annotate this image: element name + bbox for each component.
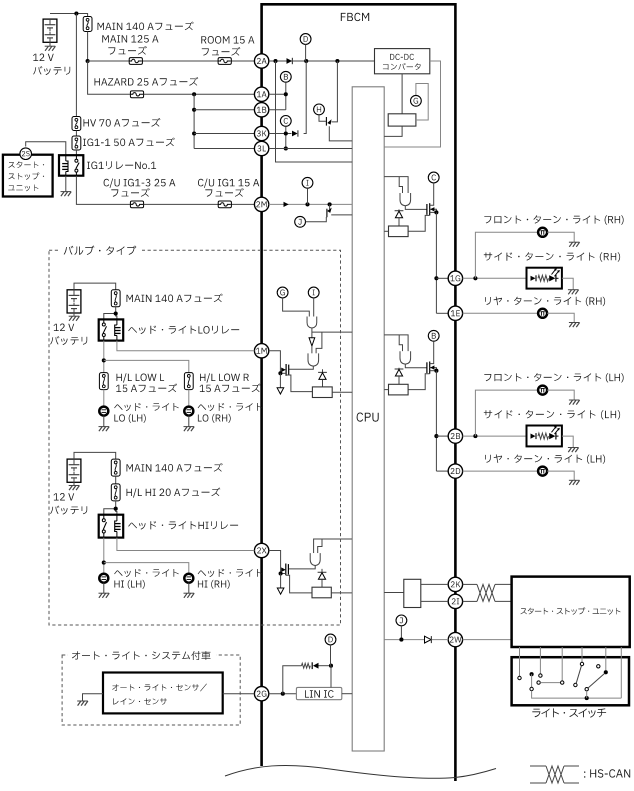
wire transceiver to 2K [421, 583, 448, 585]
node D (bottom) [325, 634, 336, 645]
connector 2B [448, 429, 462, 443]
label bulb-type [64, 246, 137, 255]
fuse HAZARD 25A [130, 91, 143, 98]
diode on 2A row [287, 58, 293, 64]
connector 2A [254, 54, 268, 68]
connector 2I [448, 594, 462, 608]
label headlight HI LH [114, 569, 179, 577]
CPU block U1 [352, 87, 384, 751]
wire battery bus down to HV fuse [75, 14, 77, 117]
wire 2S to IG1 relay coil [26, 142, 66, 155]
bulb headlight LO LH [99, 407, 108, 416]
wire 3K row interior [269, 133, 292, 135]
connector 2X [254, 543, 268, 557]
wire MAIN140 fuse to 2A row [87, 32, 89, 62]
label LO relay [128, 326, 239, 335]
junction 2A-a [273, 59, 277, 63]
wire transceiver to CPU [384, 592, 404, 594]
wire battery B3 to fuse [74, 452, 116, 459]
label IG1 relay [87, 161, 156, 169]
wire 3L row into CPU [269, 148, 352, 150]
signal arrow on 2M row [284, 202, 289, 207]
label light switch [532, 708, 606, 717]
node G (top) [411, 95, 422, 106]
wire to connector 3K [194, 133, 254, 135]
wire D down to LIN IC [330, 645, 332, 666]
junction 3L row [284, 146, 288, 150]
label IG1-1 fuse [83, 138, 175, 147]
wire fuse to LO LH bulb [103, 390, 105, 407]
label battery B3 [54, 493, 75, 501]
fuse C/U IG1-3 25A [130, 201, 143, 208]
connector 3L [254, 141, 268, 155]
node B (top) [280, 71, 291, 82]
node G loop wire [416, 84, 428, 121]
connector 2S [20, 148, 32, 160]
junction 2A-b [304, 59, 308, 63]
wire 2A row to connector 2A [88, 60, 255, 62]
wire transceiver to 2I [421, 600, 448, 602]
wire fuse to HI relay [116, 501, 117, 515]
wire J to 2W row [400, 626, 402, 640]
fuse ROOM 15A [218, 58, 231, 65]
junction node battery bus [74, 11, 78, 15]
junction 2A-c [335, 59, 339, 63]
junction 2G-LIN [281, 692, 285, 696]
label H/L HI fuse [127, 488, 221, 498]
wire battery top to MAIN140 fuse [50, 14, 88, 17]
transistor Q-H [314, 104, 325, 115]
label C/U IG1 fuse [198, 179, 259, 188]
label MAIN140 fuse LO [127, 294, 223, 303]
label 12V battery [33, 54, 54, 62]
connector 3K [254, 126, 268, 140]
ground below IG1 relay coil [65, 176, 67, 192]
twisted pair to start-stop unit [463, 583, 477, 585]
junction 3K row [192, 131, 196, 135]
wire 2W to start-stop unit [463, 639, 512, 641]
auto-light system dashed box [62, 655, 240, 725]
headlight HI driver block (2X) [314, 539, 352, 553]
battery B2 12V (LO) [67, 290, 81, 313]
label HV fuse [84, 118, 161, 127]
node I (top) [302, 177, 313, 188]
diode on 3K branch [292, 131, 298, 137]
connector 2D [448, 464, 462, 478]
bulb headlight LO RH [184, 407, 193, 416]
pullup resistor and diode to node D [283, 666, 302, 694]
battery B1 12V [43, 19, 57, 42]
light switch box [512, 657, 629, 705]
fuse MAIN 140A (HI section) [111, 459, 120, 476]
relay headlight LO [99, 319, 124, 340]
label battery B2 [54, 324, 75, 332]
turn signal driver block RH (node C) [384, 177, 408, 193]
wire HV to IG1-1 fuse [75, 131, 77, 137]
fuse MAIN 125A [129, 58, 142, 65]
bottom break wavy line [225, 765, 496, 778]
wire LO relay switch to fuses [103, 341, 105, 373]
label H/L LOW R [200, 373, 249, 382]
wire hazard branch down to 3L [193, 94, 195, 148]
fuse MAIN 140A (LO section) [111, 290, 120, 307]
wire 2A row interior to DC-DC [269, 60, 375, 62]
connector 1A [254, 87, 268, 101]
wire sensor to 2G [223, 693, 255, 695]
ground LO RH [188, 416, 190, 427]
fuse H/L LOW R 15A [184, 373, 193, 390]
fuse H/L LOW L 15A [99, 373, 108, 390]
ground for sensor [83, 694, 104, 701]
fuse C/U IG1 15A [218, 201, 231, 208]
bulb-type option dashed box [49, 250, 341, 625]
HS-CAN legend label [584, 769, 630, 777]
label HI relay [128, 521, 238, 530]
wire resistor to CPU right edge [384, 126, 402, 136]
connector 1G [448, 271, 462, 285]
wire 1B row interior [269, 109, 286, 111]
wire 2W row [384, 639, 448, 641]
label C/U IG1-3 fuse [104, 179, 176, 188]
wire driver output to 2B/2D [435, 371, 437, 471]
fuse MAIN 140A (vertical) [83, 17, 92, 32]
label headlight LO RH [198, 403, 263, 411]
wire MAIN125 junction down to HAZARD row [88, 61, 255, 94]
wire DC-DC bottom to resistor [401, 74, 403, 114]
label MAIN140 fuse HI [127, 463, 223, 472]
light switch wiring [519, 647, 521, 676]
wire I down to 2M row [307, 188, 309, 204]
ground below battery B3 [73, 482, 75, 485]
turn signal driver block LH (node B) [384, 335, 408, 351]
wire LO relay coil to 1M [117, 341, 255, 351]
fuse HV 70A (vertical) [72, 117, 81, 131]
label ROOM 15A fuse [201, 36, 254, 44]
node D (top) [300, 34, 311, 45]
wire to connector 1B [194, 109, 254, 111]
wire HI relay coil to 2X [117, 538, 255, 551]
junction 1A row [284, 92, 288, 96]
ground below battery B2 [73, 313, 75, 316]
junction 1B row [192, 108, 196, 112]
junction above LO relay [114, 311, 118, 315]
wire IG1-1 fuse to relay [75, 150, 77, 155]
wire 1A row interior [269, 93, 286, 95]
node J (bottom) [396, 615, 407, 626]
label headlight HI RH [198, 569, 263, 577]
ground below battery B1 [49, 42, 51, 46]
FBCM label [341, 13, 369, 21]
wire LIN IC to CPU [342, 693, 352, 695]
bulb headlight HI LH [99, 574, 108, 583]
connector 2M [254, 197, 268, 211]
resistor block R-G [388, 114, 416, 126]
wire driver output to 1G/1E [435, 212, 437, 313]
headlight LO driver block (nodes G I) [277, 287, 288, 298]
ground LO LH [103, 416, 105, 427]
HS-CAN legend symbol [530, 765, 546, 767]
fuse H/L HI 20A [111, 484, 120, 501]
wire between fuses [115, 476, 117, 484]
fuse IG1-1 50A (vertical) [72, 136, 81, 150]
battery B3 12V (HI) [67, 459, 81, 482]
junction HAZARD row [192, 92, 196, 96]
wire 2G to LIN IC [269, 693, 297, 695]
connector 2K [448, 577, 462, 591]
DC-DC converter block [375, 49, 430, 74]
wire fuse to LO relay [116, 307, 117, 320]
wire B to 1A/1B rows [285, 82, 287, 110]
wire 2A branch into CPU [276, 61, 353, 162]
label MAIN 140A fuse [98, 22, 194, 31]
turn lights RH group [484, 215, 623, 224]
wire 2M row into CPU [269, 203, 352, 205]
junction MAIN125 row [86, 59, 90, 63]
diode on 2W row [425, 636, 432, 643]
bulb headlight HI RH [184, 574, 193, 583]
CAN transceiver block [404, 579, 421, 607]
wire C to 3K row [285, 126, 287, 148]
connector 1E [448, 306, 462, 320]
wire to connector 3L [194, 148, 254, 150]
LIN IC block [296, 687, 341, 699]
label auto-light system [72, 651, 211, 660]
junction 3K row [284, 131, 288, 135]
CPU label [357, 413, 379, 422]
wire HI relay switch to bulbs [103, 538, 105, 574]
wire battery B2 to MAIN140 fuse [74, 283, 116, 290]
turn lights LH group [484, 373, 623, 382]
transistor Q-J [295, 216, 306, 227]
relay headlight HI [99, 515, 124, 538]
ground HI LH [103, 583, 105, 594]
FBCM module boundary [262, 4, 456, 781]
wire IG1 relay to C/U fuse row [76, 176, 254, 205]
label H/L LOW L [117, 373, 165, 382]
connector 1B [254, 103, 268, 117]
node C (top) [280, 116, 291, 127]
connector 2W [448, 632, 462, 646]
junction D-LIN [329, 664, 333, 668]
connector 1M [254, 344, 268, 358]
connector 2G [254, 687, 268, 701]
wire D to 2A row and down to 3K diode [305, 44, 307, 61]
ground HI RH [188, 583, 190, 594]
label HAZARD fuse [95, 77, 199, 86]
label headlight LO LH [114, 403, 179, 411]
relay IG1 No.1 [59, 155, 83, 176]
start-stop unit box (right) [512, 577, 630, 647]
start-stop unit box (left) [3, 155, 53, 197]
wire fuse to LO RH bulb [188, 390, 190, 407]
wire DC-DC output loop to CPU [384, 61, 440, 147]
junction 2M-J [328, 202, 332, 206]
auto light sensor box [103, 673, 223, 714]
junction 2M-I [305, 202, 309, 206]
junction above HI relay [114, 507, 118, 511]
label MAIN 125A fuse [102, 35, 158, 43]
